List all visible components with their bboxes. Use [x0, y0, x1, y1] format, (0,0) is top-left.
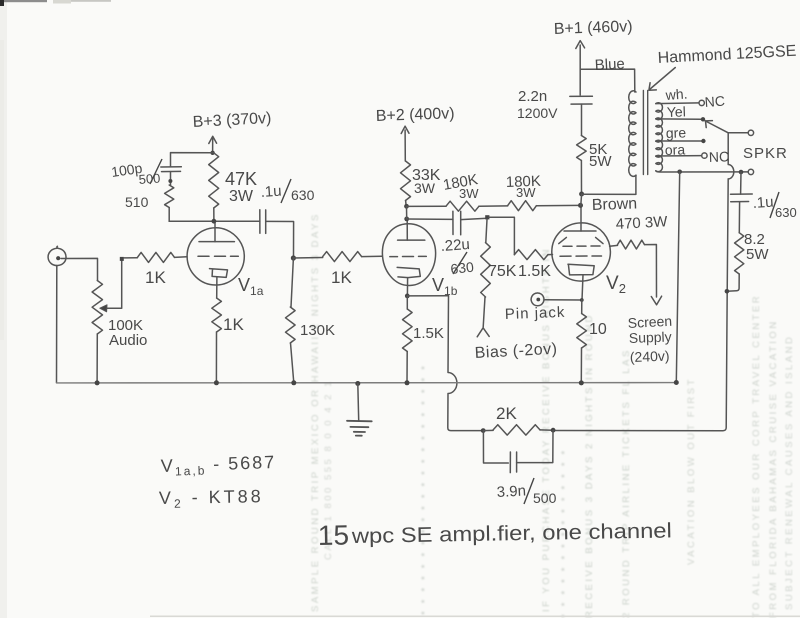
svg-text:.1u: .1u — [260, 183, 282, 201]
svg-text:1.5K: 1.5K — [413, 325, 444, 342]
node rail: 130K — [291, 380, 296, 385]
resistor 1K cathode V1a — [212, 298, 222, 332]
capacitor .22u/630 — [453, 211, 461, 235]
svg-text:RECEIVE BONUS 3 DAYS 2 NIGHTS: RECEIVE BONUS 3 DAYS 2 NIGHTS IN ROUND — [584, 313, 595, 618]
node 2K left — [481, 428, 486, 433]
wire pin jack to cathode — [544, 299, 582, 301]
wire plate node row — [169, 220, 260, 222]
svg-text:2 ROUND TRIP AIRLINE TICKETS F: 2 ROUND TRIP AIRLINE TICKETS FL LAS — [621, 348, 632, 618]
svg-text:3.9n: 3.9n — [496, 482, 526, 501]
capacitor .1u/630 coupling — [260, 210, 266, 234]
wire B+3 node to 100p branch — [171, 153, 213, 167]
node Brown junction — [579, 192, 584, 197]
resistor 180K 3W second — [508, 201, 537, 211]
svg-text:.22u: .22u — [440, 236, 470, 255]
node 180K/plate junction — [578, 203, 583, 208]
bias connector chevron — [477, 328, 489, 337]
V1a plate — [199, 241, 234, 243]
capacitor 3.9n/500 loop — [483, 431, 508, 463]
svg-text:130K: 130K — [300, 322, 335, 339]
node V1a plate — [212, 219, 217, 224]
scanner edge artifacts (decorative) — [0, 0, 4, 6]
wire common down to ground rail — [676, 172, 679, 383]
wire node down to 130K — [291, 258, 293, 307]
svg-text:Pin jack: Pin jack — [505, 304, 566, 323]
resistor 8.2 5W — [735, 233, 744, 274]
resistor 180K 3W first — [446, 201, 479, 211]
svg-text:5W: 5W — [589, 153, 612, 170]
wire zobel top — [740, 172, 742, 194]
tube V1b envelope — [382, 224, 435, 286]
pin jack (bias measure) — [531, 293, 544, 306]
screen supply arrow (down) — [651, 296, 661, 305]
wire jack sleeve down — [56, 266, 58, 383]
svg-text:Audio: Audio — [109, 332, 147, 349]
svg-text:3W: 3W — [414, 180, 436, 196]
svg-text:Blue: Blue — [594, 55, 625, 74]
node yel tap — [701, 117, 705, 121]
V2 plate — [564, 230, 596, 232]
resistor 33K 3W — [401, 161, 411, 201]
Hammond label arrow — [650, 68, 676, 90]
svg-text:630: 630 — [450, 259, 475, 277]
wire node to 1.5K grid stopper — [489, 217, 515, 255]
svg-text:NC: NC — [704, 93, 725, 110]
svg-text:2K: 2K — [496, 404, 517, 423]
transformer T1 primary coil — [629, 91, 636, 177]
wire 33K node to 180K row — [407, 205, 447, 207]
svg-text:1200V: 1200V — [517, 105, 558, 121]
wire Brown to primary bottom — [582, 175, 636, 194]
tube V2 envelope — [552, 223, 611, 281]
tap wh. wire — [656, 102, 699, 105]
svg-text:SAMPLE ROUND TRIP MEXICO OR HA: SAMPLE ROUND TRIP MEXICO OR HAWAII 2 NIG… — [310, 212, 321, 612]
svg-text:1K: 1K — [223, 315, 244, 334]
svg-text:2.2n: 2.2n — [518, 88, 547, 105]
wire junction to SPKR hot — [728, 132, 748, 134]
svg-text:ora: ora — [665, 141, 686, 158]
V2 screen grid (dashed) — [563, 245, 600, 247]
resistor 1.5K cathode V1b — [403, 309, 413, 352]
svg-text:1.5K: 1.5K — [518, 263, 551, 280]
resistor 1K grid V1a — [124, 257, 138, 259]
node 100p/510 junction — [168, 179, 172, 183]
svg-text:510: 510 — [125, 194, 149, 210]
node V1b grid junction — [291, 255, 296, 260]
node rail: V1b cathode res — [405, 380, 410, 385]
tube V1a envelope — [187, 228, 244, 285]
V1a cathode — [210, 269, 228, 278]
svg-text:gre: gre — [666, 124, 687, 141]
svg-text:NC: NC — [709, 148, 730, 165]
svg-text:470 3W: 470 3W — [615, 213, 668, 233]
node 33K bottom — [404, 204, 409, 209]
svg-text:SUBJECT RENEWAL CAUSES AND ISL: SUBJECT RENEWAL CAUSES AND ISLAND — [784, 335, 795, 610]
V2 cathode — [568, 264, 594, 275]
svg-text:630: 630 — [775, 205, 797, 220]
svg-text:B+2 (400v): B+2 (400v) — [376, 105, 455, 125]
input jack J1 — [48, 246, 66, 265]
V1b plate — [398, 239, 425, 241]
svg-text:500: 500 — [533, 490, 557, 506]
svg-text:15: 15 — [318, 519, 350, 551]
node common/ground branch — [677, 170, 682, 175]
power B+1 arrow — [579, 45, 581, 95]
svg-text:.1u: .1u — [752, 194, 774, 212]
transformer T1 secondary coil — [656, 103, 663, 120]
svg-text:500: 500 — [138, 171, 161, 187]
node rail: V1a cathode — [214, 380, 219, 385]
terminal SPKR low (open) — [748, 169, 753, 174]
svg-text:75K: 75K — [488, 263, 517, 280]
svg-text:3W: 3W — [459, 186, 479, 201]
svg-text:* * * * * * * * * * * * * * *: * * * * * * * * * * * * * * * * * * * * … — [420, 364, 431, 615]
node B+3 / 47K top — [210, 151, 214, 155]
svg-text:TO ALL EMPLOYEES OUR CORP TRAV: TO ALL EMPLOYEES OUR CORP TRAVEL CENTER — [751, 294, 762, 618]
svg-text:10: 10 — [589, 321, 607, 338]
ghost bleed-through text (decorative) — [310, 212, 795, 618]
terminal NC top (open) — [699, 100, 704, 105]
resistor 470 3W screen — [610, 244, 618, 247]
resistor 10 cathode V2 — [581, 300, 583, 314]
svg-text:3W: 3W — [229, 188, 254, 205]
wire V1b cathode to feedback drop — [407, 295, 448, 297]
selector wire yel to junction — [705, 121, 729, 133]
terminal SPKR hot (open) — [748, 130, 753, 135]
svg-text:wh.: wh. — [664, 86, 688, 104]
power B+3 arrow — [212, 138, 214, 153]
svg-text:VACATION BLOW OUT FIRST: VACATION BLOW OUT FIRST — [686, 377, 697, 565]
resistor 1.5K grid V2 — [514, 250, 548, 260]
svg-text:(240v): (240v) — [630, 348, 670, 365]
V2 control grid (dashed) — [560, 255, 602, 257]
wire secondary common — [656, 171, 748, 172]
node rail: pot — [95, 380, 100, 385]
potentiometer 100K Audio — [92, 281, 102, 335]
node rail: ground stub — [355, 381, 360, 386]
node rail: right end — [674, 380, 679, 385]
wire ground rail — [57, 382, 677, 384]
svg-text:47K: 47K — [225, 169, 257, 189]
power B+2 arrow — [404, 130, 406, 161]
svg-text:Brown: Brown — [592, 195, 638, 214]
V1b grid (dashed) — [390, 255, 427, 257]
transformer T1 core — [643, 91, 647, 175]
wire selector down with hop — [553, 133, 734, 431]
capacitor 2.2n 1200V — [570, 96, 593, 104]
V1a grid (dashed) — [198, 255, 238, 257]
wire plate to .22u — [407, 218, 453, 220]
svg-text:B+1 (460v): B+1 (460v) — [554, 18, 633, 38]
node rail: V2 cathode res — [579, 380, 584, 385]
node 2K right — [551, 428, 556, 433]
wire 8.2 bottom to selector line — [727, 274, 739, 291]
capacitor 100p/500 — [161, 167, 182, 172]
node common/zobel branch — [739, 170, 744, 175]
tap yel wire — [656, 118, 701, 120]
node zobel/selector junction — [725, 289, 730, 294]
resistor 2K feedback — [483, 429, 493, 431]
capacitor .1u/630 zobel — [731, 194, 753, 202]
wire node down to 75K — [486, 219, 487, 242]
wire 75K to bias point — [483, 297, 485, 327]
ground symbol — [357, 384, 360, 421]
wire pot bottom to ground rail — [96, 334, 98, 383]
svg-text:1K: 1K — [145, 268, 166, 287]
tap gre wire — [656, 140, 702, 142]
svg-text:3W: 3W — [516, 185, 536, 200]
resistor 510 — [165, 185, 174, 208]
node V1b cathode — [405, 294, 410, 299]
terminal NC bottom (open) — [702, 153, 707, 158]
node V2 cathode — [580, 298, 584, 302]
svg-text:Yel: Yel — [667, 103, 686, 120]
svg-text:1K: 1K — [331, 268, 352, 287]
wire Blue to primary top — [580, 69, 635, 92]
wire feedback drop with rail hop — [448, 296, 483, 431]
svg-text:SPKR: SPKR — [743, 145, 788, 162]
node V1b plate — [404, 217, 409, 222]
pot wiper arrow — [105, 259, 122, 308]
resistor 75K — [481, 243, 491, 297]
node .22u output — [485, 215, 489, 219]
svg-text:630: 630 — [291, 187, 315, 203]
resistor 130K — [286, 307, 296, 343]
svg-text:5W: 5W — [746, 246, 769, 263]
node wiper corner — [120, 257, 124, 261]
svg-text:FROM FLORIDA BAHAMAS CRUISE VA: FROM FLORIDA BAHAMAS CRUISE VACATION — [768, 319, 779, 618]
svg-text:Supply: Supply — [629, 329, 672, 346]
resistor 5K 5W — [577, 136, 587, 161]
wire jack to pot top — [61, 258, 98, 280]
V1b cathode — [397, 267, 420, 277]
resistor 47K 3W — [209, 153, 219, 208]
node gre tap — [701, 139, 705, 143]
tap ora wire — [656, 155, 702, 157]
V2 beam plates — [559, 237, 603, 243]
resistor 1K grid V1b — [293, 257, 322, 260]
